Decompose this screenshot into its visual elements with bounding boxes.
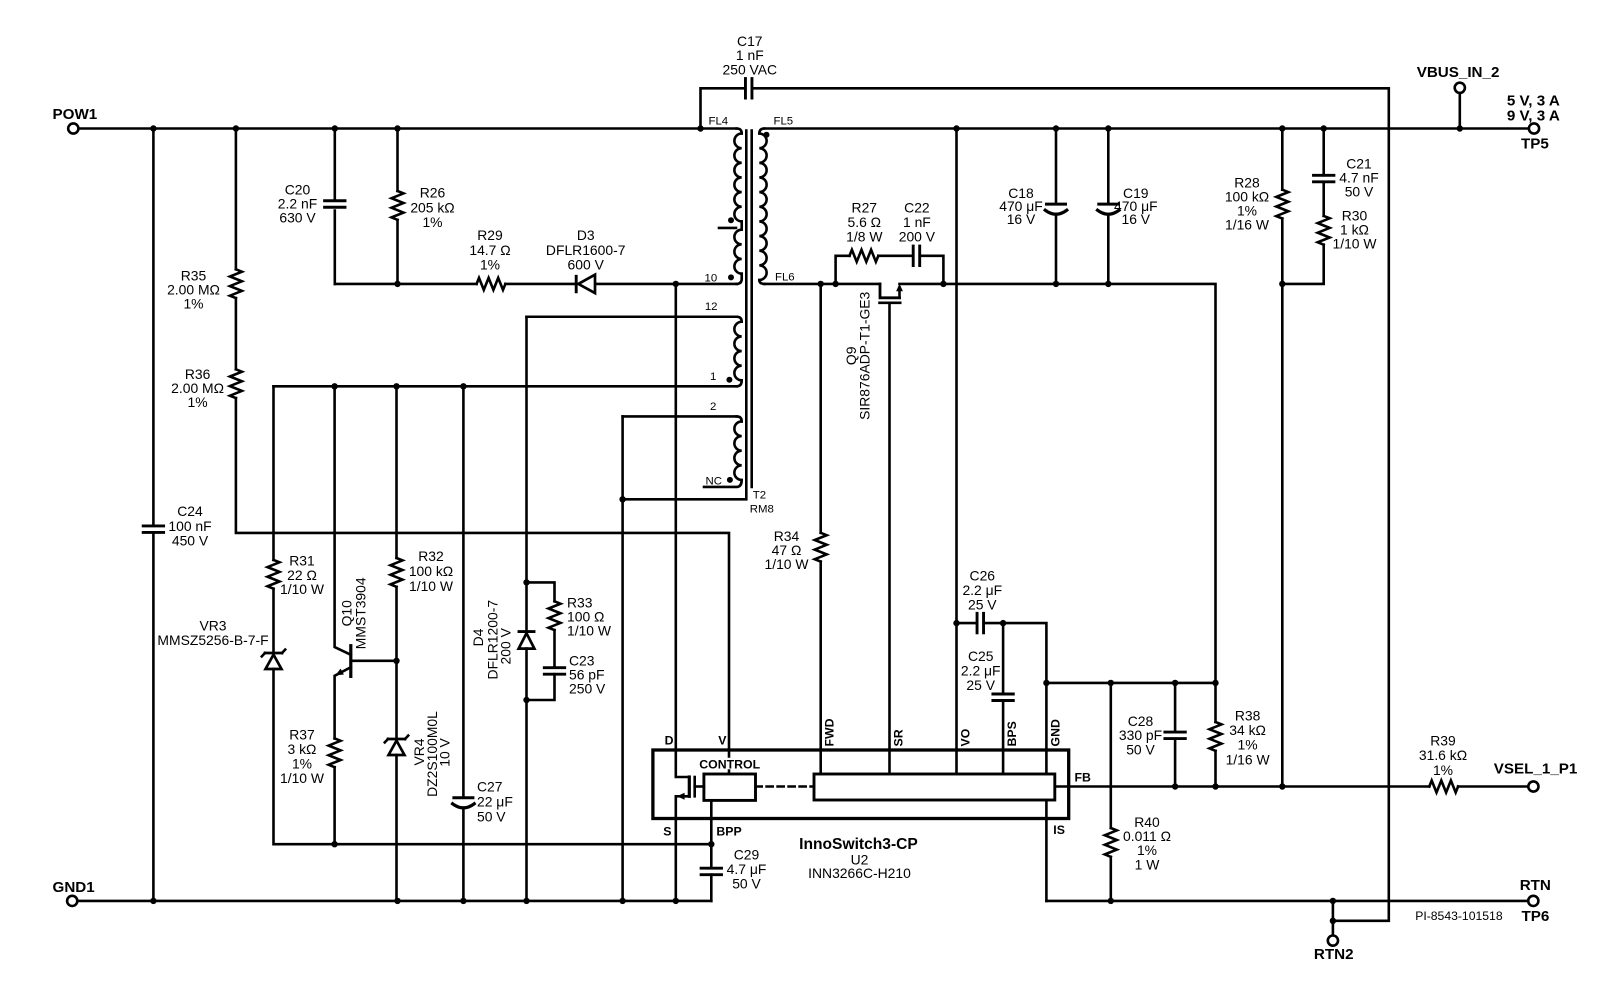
svg-text:InnoSwitch3-CP: InnoSwitch3-CP <box>799 836 918 853</box>
svg-text:1/10 W: 1/10 W <box>764 556 809 572</box>
svg-text:34 kΩ: 34 kΩ <box>1229 722 1266 738</box>
svg-text:1/16 W: 1/16 W <box>1226 751 1271 767</box>
svg-text:R38: R38 <box>1235 708 1261 724</box>
svg-text:VBUS_IN_2: VBUS_IN_2 <box>1417 64 1500 81</box>
svg-text:GND: GND <box>1048 719 1062 746</box>
svg-text:DFLR1600-7: DFLR1600-7 <box>546 242 626 258</box>
svg-text:BPP: BPP <box>716 825 741 839</box>
svg-text:1/8 W: 1/8 W <box>846 228 883 244</box>
svg-text:50 V: 50 V <box>1126 742 1155 758</box>
svg-text:10: 10 <box>705 272 718 284</box>
svg-text:2: 2 <box>710 401 716 413</box>
svg-text:12: 12 <box>705 301 718 313</box>
svg-text:205 kΩ: 205 kΩ <box>410 199 454 215</box>
svg-text:450 V: 450 V <box>172 533 209 549</box>
svg-text:1%: 1% <box>188 394 208 410</box>
svg-text:1 W: 1 W <box>1135 856 1161 872</box>
svg-text:D3: D3 <box>577 227 595 243</box>
svg-text:25 V: 25 V <box>968 596 997 612</box>
svg-text:FL6: FL6 <box>775 272 795 284</box>
svg-text:V: V <box>718 734 727 748</box>
svg-text:R26: R26 <box>420 185 446 201</box>
svg-text:IS: IS <box>1053 823 1065 837</box>
svg-text:TP6: TP6 <box>1522 908 1550 925</box>
svg-text:BPS: BPS <box>1005 721 1019 746</box>
svg-text:R39: R39 <box>1430 732 1456 748</box>
svg-text:FB: FB <box>1075 771 1092 785</box>
svg-text:CONTROL: CONTROL <box>699 758 760 772</box>
svg-text:VO: VO <box>959 728 973 746</box>
svg-text:630 V: 630 V <box>279 209 316 225</box>
svg-text:C24: C24 <box>177 503 203 519</box>
svg-text:9 V, 3 A: 9 V, 3 A <box>1507 108 1560 125</box>
svg-text:31.6 kΩ: 31.6 kΩ <box>1419 747 1467 763</box>
svg-text:1/10 W: 1/10 W <box>280 770 325 786</box>
svg-text:1/10 W: 1/10 W <box>280 581 325 597</box>
svg-text:VSEL_1_P1: VSEL_1_P1 <box>1494 760 1578 777</box>
svg-text:D: D <box>665 734 674 748</box>
svg-text:600 V: 600 V <box>568 257 605 273</box>
svg-text:50 V: 50 V <box>477 809 506 825</box>
svg-text:25 V: 25 V <box>966 677 995 693</box>
svg-text:RTN: RTN <box>1520 877 1551 894</box>
svg-text:1/10 W: 1/10 W <box>409 578 454 594</box>
svg-text:50 V: 50 V <box>732 876 761 892</box>
svg-text:16 V: 16 V <box>1122 211 1151 227</box>
svg-text:250 V: 250 V <box>569 681 606 697</box>
svg-text:GND1: GND1 <box>53 879 96 896</box>
svg-text:10 V: 10 V <box>437 737 453 766</box>
svg-text:PI-8543-101518: PI-8543-101518 <box>1415 909 1503 923</box>
svg-text:S: S <box>663 825 671 839</box>
svg-text:14.7 Ω: 14.7 Ω <box>469 242 510 258</box>
svg-text:R29: R29 <box>477 227 503 243</box>
svg-text:100 nF: 100 nF <box>168 518 211 534</box>
svg-text:MMSZ5256-B-7-F: MMSZ5256-B-7-F <box>157 632 268 648</box>
svg-text:T2: T2 <box>753 489 766 501</box>
svg-text:RM8: RM8 <box>750 504 774 516</box>
svg-text:250 VAC: 250 VAC <box>723 62 778 78</box>
svg-text:SIR876ADP-T1-GE3: SIR876ADP-T1-GE3 <box>857 291 873 419</box>
svg-text:1%: 1% <box>1238 737 1258 753</box>
svg-text:200 V: 200 V <box>899 228 936 244</box>
svg-text:R32: R32 <box>418 548 444 564</box>
svg-text:FL5: FL5 <box>774 115 794 127</box>
svg-text:POW1: POW1 <box>53 106 98 123</box>
svg-text:INN3266C-H210: INN3266C-H210 <box>808 865 911 881</box>
svg-text:1%: 1% <box>422 214 442 230</box>
svg-text:1/10 W: 1/10 W <box>1332 236 1377 252</box>
svg-text:TP5: TP5 <box>1521 136 1549 153</box>
svg-text:SR: SR <box>892 729 906 746</box>
svg-text:RTN2: RTN2 <box>1314 946 1354 963</box>
svg-text:1/10 W: 1/10 W <box>567 623 612 639</box>
svg-text:FL4: FL4 <box>709 115 729 127</box>
svg-text:100 kΩ: 100 kΩ <box>409 563 453 579</box>
svg-text:1: 1 <box>710 371 716 383</box>
svg-text:FWD: FWD <box>823 718 837 746</box>
svg-text:50 V: 50 V <box>1345 183 1374 199</box>
svg-text:1%: 1% <box>183 296 203 312</box>
svg-text:16 V: 16 V <box>1007 211 1036 227</box>
svg-text:1/16 W: 1/16 W <box>1225 217 1270 233</box>
svg-text:NC: NC <box>706 475 722 487</box>
svg-text:MMST3904: MMST3904 <box>353 577 369 649</box>
svg-text:200 V: 200 V <box>498 627 514 664</box>
svg-text:1%: 1% <box>1433 762 1453 778</box>
svg-text:22 μF: 22 μF <box>477 794 513 810</box>
svg-text:C27: C27 <box>477 779 503 795</box>
svg-text:1%: 1% <box>480 257 500 273</box>
